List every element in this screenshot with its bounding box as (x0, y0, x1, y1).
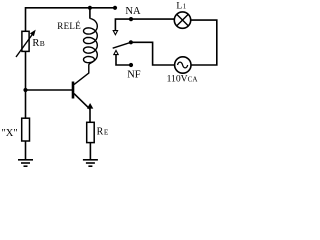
svg-text:L: L (176, 1, 182, 11)
svg-text:CA: CA (188, 76, 199, 84)
svg-text:E: E (104, 128, 109, 137)
svg-text:R: R (97, 127, 104, 138)
svg-text:RELÉ: RELÉ (57, 21, 81, 31)
svg-text:110V: 110V (167, 74, 188, 85)
svg-text:R: R (32, 38, 39, 49)
svg-text:NA: NA (125, 6, 141, 17)
svg-text:1: 1 (183, 2, 187, 10)
svg-text:"X": "X" (2, 128, 18, 139)
svg-text:NF: NF (127, 69, 141, 80)
svg-text:B: B (40, 39, 45, 48)
